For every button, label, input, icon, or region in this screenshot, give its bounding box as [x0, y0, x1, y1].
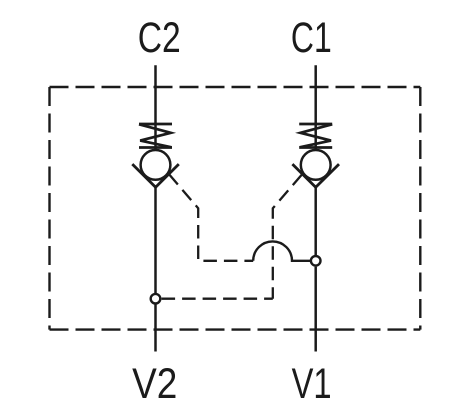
svg-text:V2: V2: [132, 360, 177, 407]
svg-text:C2: C2: [138, 14, 181, 61]
svg-text:C1: C1: [291, 14, 332, 61]
svg-text:V1: V1: [292, 360, 332, 407]
